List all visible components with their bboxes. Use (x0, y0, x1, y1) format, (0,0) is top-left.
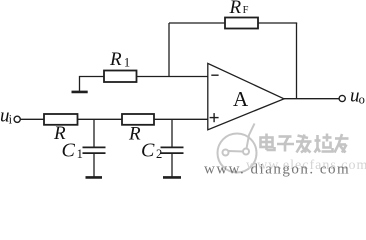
wire output (284, 98, 339, 100)
wire feedback vertical (296, 23, 298, 99)
svg-text:C: C (141, 140, 155, 162)
svg-text:1: 1 (77, 147, 83, 161)
resistor RF (225, 18, 258, 29)
wire input rail: first R to second R (78, 118, 123, 120)
resistor R (second) (122, 114, 154, 125)
svg-text:o: o (359, 93, 365, 107)
op-amp plus sign (210, 117, 219, 119)
svg-text:R: R (128, 124, 141, 145)
watermark chinese chars 电子发烧友 (drawn strokes) (261, 134, 349, 153)
wire R1 right to op-amp minus input (137, 76, 208, 78)
svg-text:F: F (243, 5, 249, 16)
resistor R1 (104, 71, 137, 83)
wire R1 left to ground stub (80, 77, 105, 91)
op-amp U1 triangle (208, 63, 284, 129)
capacitor C2 bottom lead (171, 153, 173, 176)
svg-text:2: 2 (156, 147, 162, 161)
capacitor C2 plates (161, 146, 184, 148)
svg-text:1: 1 (124, 56, 130, 70)
capacitor C2 top lead (171, 119, 173, 147)
svg-text:A: A (233, 87, 249, 111)
op-amp minus sign (211, 74, 218, 76)
capacitor C1 top lead (93, 119, 95, 147)
ground (left, under R1 wire) (72, 91, 88, 94)
svg-text:www. diangon. com: www. diangon. com (204, 162, 350, 178)
svg-text:R: R (109, 49, 122, 70)
svg-text:R: R (229, 0, 242, 18)
resistor R (first) (44, 114, 78, 125)
wire junction vertical to RF (168, 23, 170, 77)
svg-text:C: C (62, 140, 76, 162)
ground (under C1) (86, 176, 103, 179)
svg-text:i: i (9, 113, 13, 127)
wire input rail: second R to op-amp plus input (154, 118, 208, 120)
ground (under C2) (163, 176, 181, 179)
watermark logo circle (218, 124, 257, 173)
capacitor C1 plates (83, 146, 106, 148)
watermark text diangon dark (204, 162, 350, 178)
capacitor C1 bottom lead (93, 153, 95, 176)
wire RF rail left (169, 22, 225, 24)
wire RF rail right (258, 22, 297, 24)
input terminal circle (14, 116, 20, 122)
wire input rail: terminal to first R (20, 118, 44, 120)
watermark text elecfans light (246, 158, 366, 173)
output terminal circle (339, 95, 345, 101)
